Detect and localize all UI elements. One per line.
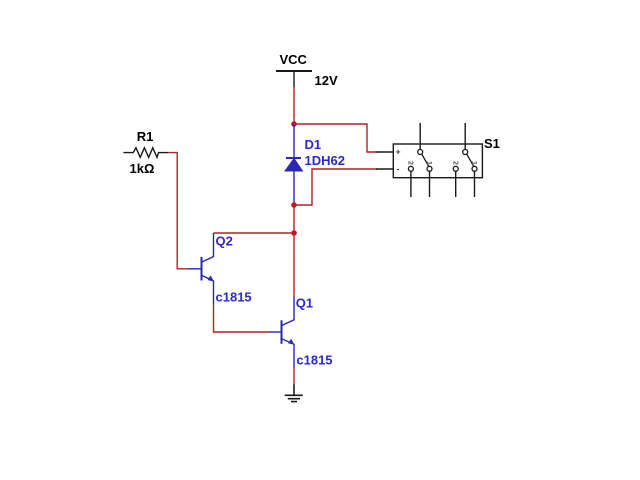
wire node B to node C (293, 205, 295, 233)
S1 pole B pin 2 lead (455, 171, 457, 197)
switch S1 body (393, 144, 482, 178)
svg-text:S1: S1 (484, 136, 500, 151)
node C junction dot (291, 230, 297, 236)
S1 pole A blade (422, 154, 429, 166)
svg-text:Q1: Q1 (296, 295, 313, 310)
svg-text:VCC: VCC (280, 52, 308, 67)
wire node B to S1 pin - (294, 169, 377, 205)
S1 pole B contact 2 (453, 166, 458, 171)
wire Q1 emitter to ground (293, 368, 295, 384)
node A junction dot (291, 121, 297, 127)
S1 pole A pin 2 lead (410, 171, 412, 197)
S1 pole A top lead (419, 123, 421, 150)
svg-text:Q2: Q2 (216, 234, 233, 249)
diode D1 (285, 124, 303, 205)
S1 pole B pivot contact (463, 150, 468, 155)
S1 pole A contact 2 (408, 166, 413, 171)
node B junction dot (291, 202, 297, 208)
wire node C to Q2 collector (214, 232, 295, 234)
resistor R1 (123, 148, 168, 158)
svg-text:c1815: c1815 (216, 290, 252, 305)
transistor Q2 (188, 233, 214, 305)
svg-text:12V: 12V (315, 73, 338, 88)
svg-text:2: 2 (407, 161, 414, 165)
wire node C to Q1 collector (293, 233, 295, 297)
svg-text:+: + (396, 147, 401, 157)
S1 pole A pivot contact (418, 150, 423, 155)
svg-text:1DH62: 1DH62 (305, 153, 345, 168)
S1 pole B top lead (464, 123, 466, 150)
S1 pin - lead (376, 168, 393, 170)
svg-text:D1: D1 (305, 137, 322, 152)
wire node A to S1 pin + (294, 124, 377, 152)
S1 pole A contact 1 (427, 166, 432, 171)
S1 pole A pin 1 lead (429, 171, 431, 197)
ground (285, 384, 303, 401)
S1 pole B pin 1 lead (474, 171, 476, 197)
S1 pin + lead (376, 151, 394, 153)
wire R1 to Q2 base (168, 153, 188, 269)
S1 pole B contact 1 (472, 166, 477, 171)
svg-text:-: - (397, 164, 400, 174)
svg-text:c1815: c1815 (296, 352, 332, 367)
svg-text:1: 1 (425, 161, 432, 165)
svg-text:1kΩ: 1kΩ (130, 161, 155, 176)
svg-text:R1: R1 (137, 129, 154, 144)
wire VCC to node A (293, 87, 295, 124)
svg-text:2: 2 (451, 161, 458, 165)
S1 pole B blade (467, 154, 474, 166)
power symbol VCC (276, 71, 312, 87)
wire Q2 emitter to Q1 base (214, 305, 269, 333)
svg-text:1: 1 (470, 161, 477, 165)
transistor Q1 (268, 297, 294, 369)
